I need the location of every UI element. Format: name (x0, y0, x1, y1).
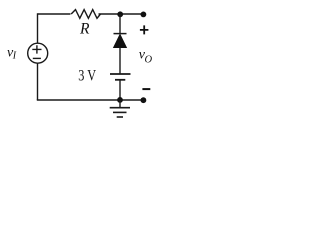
wire diode to battery (119, 48, 121, 74)
resistor R (71, 10, 100, 19)
node junction bottom (117, 97, 123, 103)
wire top-right horizontal (99, 13, 144, 15)
svg-text:3 V: 3 V (78, 68, 96, 85)
wire diode branch upper (119, 14, 121, 34)
voltage source vI (28, 43, 48, 63)
node junction top (117, 11, 123, 17)
wire battery to bottom (119, 80, 121, 100)
svg-text:O: O (145, 55, 153, 66)
ground (110, 100, 130, 117)
label R (79, 21, 90, 38)
battery 3V plates (110, 74, 131, 80)
minus output terminal sign (142, 88, 150, 90)
wire left vertical upper (37, 13, 39, 43)
svg-text:I: I (12, 50, 17, 61)
label 3V (78, 68, 96, 85)
wire left vertical lower (37, 63, 39, 100)
wire bottom horizontal (37, 99, 144, 101)
svg-text:R: R (79, 21, 90, 38)
label vI (7, 45, 17, 61)
plus output terminal sign (140, 25, 149, 34)
diode D (cathode bar and filled triangle pointing up) (114, 34, 127, 48)
label vO (139, 48, 153, 66)
node terminal bottom-right (141, 97, 147, 103)
node terminal top-right (141, 12, 147, 18)
wire top-left horizontal (38, 13, 71, 15)
